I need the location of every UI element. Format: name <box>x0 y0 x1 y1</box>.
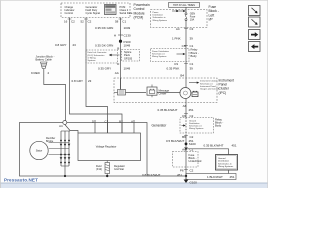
wire label 0.35 PNK 39 <box>167 66 194 70</box>
fuse GEN 10A symbol <box>185 13 187 21</box>
svg-text:451: 451 <box>177 173 182 177</box>
svg-text:1049: 1049 <box>124 66 131 70</box>
svg-text:23: 23 <box>88 79 92 83</box>
wire label 0.35 DK GRN 1049 (second) <box>95 44 131 48</box>
instrument cluster dashed box <box>114 78 217 103</box>
boxed wire label 1 BLK/WHT 451 <box>186 174 236 180</box>
regulator pin D <box>92 119 95 133</box>
svg-text:(DLC) Schematics: (DLC) Schematics <box>88 54 105 57</box>
svg-text:C1: C1 <box>190 62 194 66</box>
splice S100 <box>185 142 196 146</box>
pin 58 C1 <box>115 18 126 24</box>
svg-text:D: D <box>92 119 94 123</box>
svg-text:Cycle Signal: Cycle Signal <box>86 11 101 15</box>
svg-text:Wiring Systems: Wiring Systems <box>218 165 234 168</box>
svg-text:in Wiring: in Wiring <box>88 56 97 59</box>
ground G100 <box>184 176 198 185</box>
svg-text:C9: C9 <box>174 62 178 66</box>
wire B6 down <box>185 135 187 176</box>
svg-text:0.35 BLK/WHT: 0.35 BLK/WHT <box>204 144 224 148</box>
svg-text:Instrument Cluster: Instrument Cluster <box>200 80 217 83</box>
label Junction Block - Battery Cable <box>36 54 55 61</box>
battery icon beside bulb <box>192 91 198 96</box>
connector A6 C1 <box>182 147 194 151</box>
arrow to wire in ref box <box>177 53 186 55</box>
svg-text:58: 58 <box>115 20 119 24</box>
svg-text:(IPC): (IPC) <box>219 91 227 95</box>
svg-text:C8: C8 <box>182 44 186 48</box>
svg-text:Distribution: Distribution <box>153 14 164 17</box>
svg-text:Underhood: Underhood <box>189 159 202 163</box>
wire generator case to ground point <box>147 175 186 177</box>
svg-text:Distribution: Distribution <box>189 122 200 125</box>
svg-text:39: 39 <box>190 66 194 70</box>
svg-text:Body: Body <box>215 124 222 128</box>
svg-text:Ground: Ground <box>218 157 226 160</box>
connector P6 C2 <box>180 169 194 173</box>
svg-text:SP205: SP205 <box>124 56 133 60</box>
svg-text:0.8 GRY: 0.8 GRY <box>72 79 83 83</box>
svg-text:A: A <box>131 119 133 123</box>
generator BAT terminal <box>59 121 67 129</box>
svg-text:AA: AA <box>115 71 119 75</box>
wire label 9 RED 2 <box>31 71 50 75</box>
wire through relay block dashes <box>185 118 187 136</box>
svg-text:(F12): (F12) <box>96 168 102 171</box>
svg-text:Systems: Systems <box>88 59 96 62</box>
svg-text:Data Link Connector: Data Link Connector <box>88 51 107 54</box>
svg-text:H: H <box>114 33 116 37</box>
connector C9 C1 <box>174 62 194 66</box>
wire label 0.35 GRY 1049 <box>98 66 131 70</box>
svg-text:451: 451 <box>232 144 237 148</box>
label Rectifier Bridge <box>46 137 55 143</box>
branch wire to ground distribution annotation <box>185 148 229 155</box>
svg-text:C2: C2 <box>88 20 92 24</box>
svg-text:C130: C130 <box>124 33 132 37</box>
wire label 1 PNK 39 <box>172 36 193 40</box>
connector B6 C2 <box>182 135 194 139</box>
wire BAT terminal to rectifier <box>65 125 78 134</box>
svg-text:Pressauto.NET: Pressauto.NET <box>4 178 38 183</box>
fuse block left I/P dashed box <box>151 10 208 28</box>
svg-text:0.5 BLK/WHT: 0.5 BLK/WHT <box>166 139 185 143</box>
label Field <box>96 165 102 171</box>
label Relay Block - Body (lower) <box>215 118 223 128</box>
ref box Fuse Block Underhood <box>173 152 199 168</box>
svg-text:I/P: I/P <box>209 18 214 22</box>
stator phase wires <box>49 143 70 155</box>
pin A4 C3 fuse block output <box>176 27 194 31</box>
nav button next page <box>249 30 261 40</box>
footer band <box>0 183 268 188</box>
rectifier diode rail 1 <box>60 131 63 166</box>
wire pin16 to generator pin B <box>70 23 123 133</box>
svg-text:C6: C6 <box>182 114 186 118</box>
svg-text:Schematics in: Schematics in <box>218 162 232 165</box>
svg-text:Wiring Systems: Wiring Systems <box>152 55 166 58</box>
svg-text:B: B <box>119 119 121 123</box>
wire label 0.35 DK GRN 1049 (upper) <box>95 26 131 30</box>
wire annotation box to label box <box>228 170 230 174</box>
svg-text:A4: A4 <box>59 124 63 128</box>
op PCM module U1 dashed box <box>61 3 130 18</box>
svg-text:C2: C2 <box>190 114 194 118</box>
svg-text:Distribution: Distribution <box>218 160 230 163</box>
label Regulator Case Grd <box>114 165 125 171</box>
svg-text:(PCM): (PCM) <box>134 16 144 20</box>
wire bulb down to cluster exit <box>185 99 187 118</box>
svg-text:C2: C2 <box>71 20 75 24</box>
label Fuse Block - Left I/P <box>209 5 219 22</box>
frame right edge <box>267 0 269 188</box>
cluster serial data receiver component <box>114 78 126 95</box>
svg-text:C3: C3 <box>190 27 194 31</box>
svg-text:0.8 GRY: 0.8 GRY <box>55 43 66 47</box>
generator box <box>20 123 148 177</box>
label HOT AT ALL TIMES header box <box>169 3 200 8</box>
ref box Ground Distribution (relay block) <box>180 118 214 134</box>
PCM label Generator Field Duty Cycle Signal <box>86 5 101 15</box>
svg-text:Grid Stat: Grid Stat <box>114 168 124 171</box>
connector C130 pin H <box>114 33 131 37</box>
ref box Data Link Connector schematics <box>86 50 118 63</box>
grommet P100 <box>119 40 131 44</box>
svg-text:451: 451 <box>189 108 194 112</box>
wire label 0.35 BLK/WHT 451 (branch) <box>204 144 237 148</box>
svg-text:Power Distribution: Power Distribution <box>152 50 170 53</box>
label Message Center <box>159 88 170 95</box>
ref text Instrument Cluster Schematics <box>200 80 220 91</box>
annotation box Ground Distribution Schematics <box>216 155 238 171</box>
regulator pin A <box>131 119 134 133</box>
junction dot field coil to case <box>106 174 108 178</box>
svg-text:52: 52 <box>81 20 85 24</box>
svg-text:1 PNK: 1 PNK <box>172 36 181 40</box>
svg-text:1049: 1049 <box>124 44 131 48</box>
message center box with battery icon <box>147 85 157 98</box>
arrow in ground ref box <box>182 124 186 126</box>
arrow to fuse wire with junction dot <box>172 10 186 12</box>
svg-text:Gauges and Console: Gauges and Console <box>200 89 220 91</box>
svg-text:HOT AT ALL TIMES: HOT AT ALL TIMES <box>173 4 195 7</box>
wire cluster pin B4 down to bulb <box>185 78 187 88</box>
rectifier diode rail 3 <box>68 131 71 166</box>
svg-text:P6: P6 <box>180 169 184 173</box>
regulator pin C <box>104 119 107 133</box>
fuse label GEN Fuse 10A <box>190 13 196 22</box>
svg-text:0.8 BLK/WHT: 0.8 BLK/WHT <box>142 173 161 177</box>
wire fuse output down <box>185 20 187 78</box>
svg-text:1049: 1049 <box>124 26 131 30</box>
svg-text:Control: Control <box>65 11 74 15</box>
PCM connector legend table <box>105 5 117 15</box>
frame top edge <box>0 0 268 2</box>
svg-text:Ground: Ground <box>189 119 197 122</box>
junction dot at ground bus <box>185 175 187 177</box>
ref box Power Distribution (mid right) <box>151 49 190 62</box>
regulator pin B <box>119 119 122 133</box>
splice pack SP205 dashed box <box>122 50 140 62</box>
PCM label Class 2 Serial Data <box>120 5 133 15</box>
label Instrument Panel Cluster (IPC) <box>219 79 235 95</box>
svg-text:16: 16 <box>64 20 68 24</box>
connector C6 C2 <box>182 114 194 118</box>
svg-text:A6: A6 <box>183 104 187 108</box>
junction block terminal symbol <box>41 62 48 69</box>
wire label 0.8 BLK/WHT 451 <box>142 173 182 177</box>
arrow to cluster ref text <box>189 82 199 84</box>
wire message center to indicator bulb <box>157 92 181 94</box>
label Fuse Block - Underhood <box>189 153 202 163</box>
connector C8 C1 <box>182 44 194 48</box>
svg-text:S100: S100 <box>189 142 196 146</box>
svg-text:Generator: Generator <box>152 123 168 127</box>
svg-text:Wiring Systems: Wiring Systems <box>153 19 167 22</box>
svg-text:C1: C1 <box>190 44 194 48</box>
svg-text:Schematics in: Schematics in <box>200 82 214 85</box>
wire receiver to message center <box>126 92 147 94</box>
nav button prev page <box>249 42 261 52</box>
rectifier top and bottom ties <box>61 131 70 177</box>
wire 9 RED battery feed to generator BAT terminal <box>44 69 66 121</box>
svg-text:Wiring Systems: Wiring Systems <box>189 127 203 130</box>
svg-text:Stator: Stator <box>36 150 43 153</box>
pin 52 C2 <box>81 18 92 24</box>
rectifier diode rail 2 <box>64 131 67 176</box>
svg-text:Battery Cable: Battery Cable <box>36 57 53 61</box>
svg-text:C: C <box>104 119 106 123</box>
svg-text:0.35 GRY: 0.35 GRY <box>98 66 111 70</box>
svg-text:23: 23 <box>73 43 77 47</box>
svg-text:451: 451 <box>230 175 235 179</box>
svg-text:C2: C2 <box>190 169 194 173</box>
charge indicator bulb <box>180 88 191 99</box>
wire label 0.35 BLK/WHT 451 (first) <box>158 108 194 112</box>
svg-text:1 BLK/WHT: 1 BLK/WHT <box>207 175 223 179</box>
wire from HOT box through fuse <box>185 8 187 14</box>
svg-text:39: 39 <box>190 36 194 40</box>
wire pin52 to generator pin C <box>86 23 108 133</box>
svg-text:A4: A4 <box>176 27 180 31</box>
svg-text:0.35 BLK/WHT: 0.35 BLK/WHT <box>158 108 178 112</box>
svg-text:Voltage Regulator: Voltage Regulator <box>96 145 117 149</box>
svg-text:9 RED: 9 RED <box>31 71 41 75</box>
svg-text:Body: Body <box>191 54 198 58</box>
PCM label Charge Indicator Control <box>65 5 75 15</box>
svg-text:C1: C1 <box>190 147 194 151</box>
label Relay Block - Body (upper) <box>191 48 199 58</box>
svg-text:Schematics in: Schematics in <box>152 52 166 55</box>
svg-text:B4: B4 <box>180 74 184 78</box>
pin 16 C2 <box>64 18 75 24</box>
stator winding circle <box>30 141 48 159</box>
wire label 0.8 GRY 23 (lower) <box>72 79 92 83</box>
voltage regulator box <box>78 133 141 161</box>
wire label 0.8 GRY 23 (upper) <box>55 43 76 47</box>
svg-text:Serial Data: Serial Data <box>120 11 133 15</box>
wire pin58 class 2 serial data <box>120 23 122 90</box>
ref text Power Distribution inside fuse block <box>153 11 167 22</box>
svg-text:10A: 10A <box>190 18 195 21</box>
label Powertrain Control Module (PCM) <box>134 3 150 20</box>
svg-text:C1: C1 <box>122 20 126 24</box>
svg-text:G100: G100 <box>190 181 198 185</box>
wire label 0.5 BLK/WHT 451 <box>166 139 194 143</box>
svg-text:0.35 DK GRN: 0.35 DK GRN <box>95 26 113 30</box>
field winding coil <box>105 161 110 174</box>
frame left edge <box>0 0 2 188</box>
arrow from wire to DLC ref box <box>109 54 120 56</box>
svg-text:Center: Center <box>159 91 167 95</box>
nav button diagonal resize 1 <box>249 6 261 16</box>
nav button diagonal resize 2 <box>249 17 261 27</box>
svg-text:Power: Power <box>153 11 159 14</box>
svg-text:0.35 DK GRN: 0.35 DK GRN <box>95 44 113 48</box>
svg-text:Schematics in: Schematics in <box>153 16 167 19</box>
svg-text:Instrument Panel,: Instrument Panel, <box>200 85 217 88</box>
svg-text:Schematics in: Schematics in <box>189 125 203 128</box>
svg-text:0.35 PNK: 0.35 PNK <box>167 66 180 70</box>
